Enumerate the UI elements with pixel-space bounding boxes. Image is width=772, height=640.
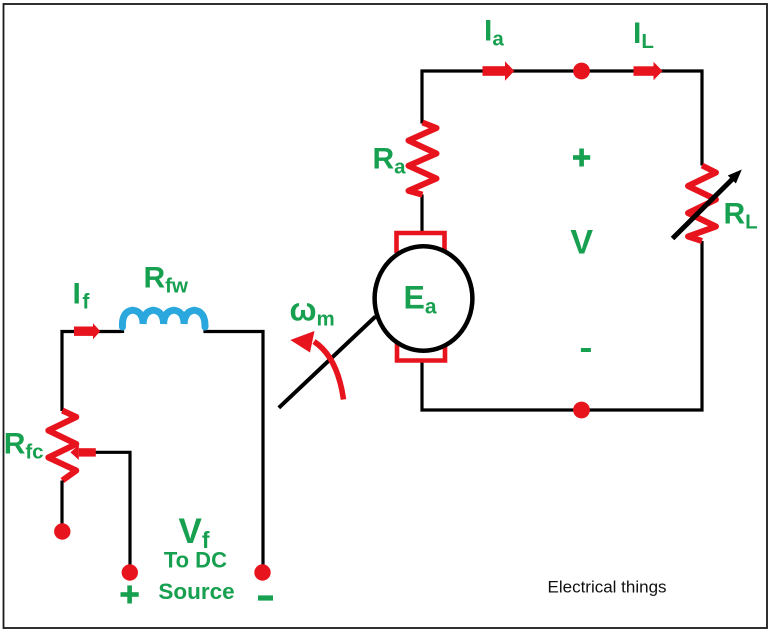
label - (V polarity)	[581, 348, 591, 352]
arrow through RL	[673, 179, 734, 239]
inductor Rfw coil	[122, 310, 205, 327]
resistor Rfc (variable)	[48, 411, 76, 481]
brush top	[397, 233, 445, 253]
terminal dot +	[122, 564, 138, 580]
tap arrow (wiper)	[79, 448, 96, 456]
field top wire + left corner down	[62, 332, 122, 412]
arrow If	[74, 327, 94, 336]
label + terminal	[121, 592, 139, 597]
wire top run: left wire down from corner, top wire, right wire down to RL	[422, 71, 702, 166]
resistor Ra	[409, 123, 437, 195]
terminal dot -	[254, 564, 270, 580]
tap wire	[96, 452, 131, 572]
shaft line	[279, 317, 376, 408]
terminal dot Rfc	[54, 523, 70, 539]
resistor RL (variable)	[688, 166, 716, 242]
node bottom (junction dot)	[573, 402, 590, 419]
coil riser left	[121, 323, 124, 333]
field wire right of coil + right wire down	[204, 332, 263, 573]
armature circle Ea	[375, 246, 473, 350]
svg-text:Source: Source	[158, 579, 234, 604]
node top (junction dot)	[573, 63, 590, 80]
svg-text:To DC: To DC	[164, 548, 227, 573]
label + (V polarity)	[573, 155, 590, 160]
wire between Ra and top brush	[420, 195, 423, 235]
label - terminal	[258, 595, 273, 600]
svg-text:Electrical things: Electrical things	[548, 577, 667, 596]
arrow Ia	[483, 66, 506, 76]
svg-text:V: V	[570, 223, 593, 261]
rotation arrow (curved)	[314, 342, 344, 400]
brush bottom	[397, 342, 445, 361]
wire Rfc bottom to terminal	[60, 481, 63, 532]
wire bottom run: RL bottom down, bottom wire, up to brush bottom	[422, 241, 702, 410]
arrow IL	[634, 66, 655, 76]
coil riser right	[203, 323, 206, 333]
